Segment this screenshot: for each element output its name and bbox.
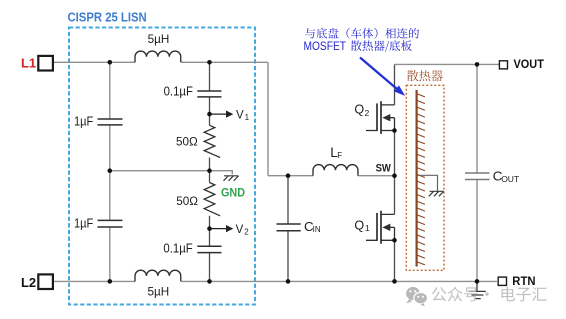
heatsink hatching: [417, 94, 425, 265]
terminal VOUT: [499, 57, 544, 71]
svg-text:50Ω: 50Ω: [176, 195, 198, 208]
node V1: [207, 112, 212, 117]
svg-text:RTN: RTN: [512, 274, 535, 288]
wire input mid rail: [268, 175, 394, 177]
node C_IN top: [286, 173, 291, 178]
node bottom-left: [108, 279, 113, 284]
chassis ground GND (LISN): [221, 176, 245, 200]
node mid-left: [108, 168, 113, 173]
wire output top rail to VOUT: [395, 63, 500, 65]
watermark WeChat icon: [406, 287, 428, 307]
node GND junction: [207, 168, 212, 173]
svg-text:CISPR 25 LISN: CISPR 25 LISN: [68, 9, 147, 24]
svg-text:0.1µF: 0.1µF: [164, 85, 194, 99]
node Q2 source: [392, 128, 397, 133]
svg-text:MOSFET: MOSFET: [304, 41, 347, 53]
annotation text line 1 (Chinese, blue): [305, 28, 419, 39]
capacitor 1uF lower: [74, 216, 123, 230]
svg-text:OUT: OUT: [501, 174, 519, 184]
node bottom-LISN-out: [207, 279, 212, 284]
watermark text: [432, 287, 489, 302]
inductor 5uH bottom: [135, 270, 181, 298]
svg-text:5µH: 5µH: [148, 33, 170, 46]
transistor Q2 (high-side MOSFET): [354, 101, 394, 134]
svg-text:1µF: 1µF: [74, 115, 94, 129]
svg-text:V: V: [236, 224, 244, 236]
capacitor C_IN: [277, 219, 321, 234]
capacitor 0.1uF lower: [163, 242, 221, 256]
node SW: [392, 173, 397, 178]
earth ground at output return: [469, 281, 486, 298]
annotation arrow (blue): [360, 58, 399, 91]
wire C_IN branch: [287, 176, 289, 282]
svg-text:GND: GND: [221, 187, 245, 199]
wire bottom rail: [53, 280, 497, 282]
wire LISN measuring branch vertical: [209, 62, 211, 281]
probe V1 arrow: [210, 109, 250, 121]
inductor 5uH top: [135, 33, 181, 62]
wire switch-node vertical chain: [394, 64, 396, 281]
capacitor 1uF upper: [74, 115, 123, 129]
terminal L2: [21, 274, 53, 290]
LISN enclosure dashed box: [69, 28, 255, 305]
node Q1 source: [392, 238, 397, 243]
svg-text:VOUT: VOUT: [514, 57, 545, 71]
heatsink dashed enclosure: [406, 85, 444, 270]
svg-text:V: V: [236, 109, 244, 121]
svg-text:Q: Q: [354, 103, 364, 117]
wire corner down to input rail: [267, 62, 269, 175]
svg-text:Q: Q: [354, 219, 364, 233]
svg-text:2: 2: [244, 227, 249, 236]
resistor 50ohm upper: [176, 125, 220, 157]
capacitor C_OUT: [465, 169, 519, 185]
svg-text:1: 1: [365, 223, 370, 233]
transistor Q1 (low-side MOSFET): [354, 211, 394, 244]
wire LISN mid rail to GND: [110, 171, 233, 175]
node V2: [207, 226, 212, 231]
wire left vertical branch: [109, 62, 111, 281]
svg-text:F: F: [337, 151, 342, 160]
chassis ground (heatsink): [418, 175, 444, 196]
capacitor 0.1uF upper: [164, 85, 222, 99]
terminal L1: [21, 56, 53, 71]
inductor LF: [313, 145, 358, 176]
node C_IN bottom: [286, 279, 291, 284]
terminal RTN: [498, 274, 535, 288]
node C_OUT bottom: [475, 279, 480, 284]
svg-text:L2: L2: [21, 275, 36, 290]
svg-text:IN: IN: [313, 225, 321, 234]
wire C_OUT branch: [476, 64, 478, 281]
node Q1 source rail: [392, 279, 397, 284]
svg-text:2: 2: [365, 108, 370, 118]
node VOUT: [475, 62, 480, 67]
svg-text:SW: SW: [376, 163, 392, 175]
svg-text:1: 1: [245, 113, 250, 122]
svg-text:1µF: 1µF: [74, 216, 94, 230]
heatsink plate bar: [416, 90, 418, 267]
svg-text:50Ω: 50Ω: [176, 136, 198, 149]
probe V2 arrow: [210, 224, 250, 236]
svg-text:5µH: 5µH: [148, 285, 170, 298]
heatsink label (Chinese): [407, 70, 443, 81]
svg-text:L1: L1: [21, 56, 36, 71]
node top-LISN-out: [207, 60, 212, 65]
wire top rail L1: [53, 61, 268, 63]
resistor 50ohm lower: [176, 183, 220, 216]
svg-text:0.1µF: 0.1µF: [163, 242, 193, 256]
node top-left: [108, 60, 113, 65]
